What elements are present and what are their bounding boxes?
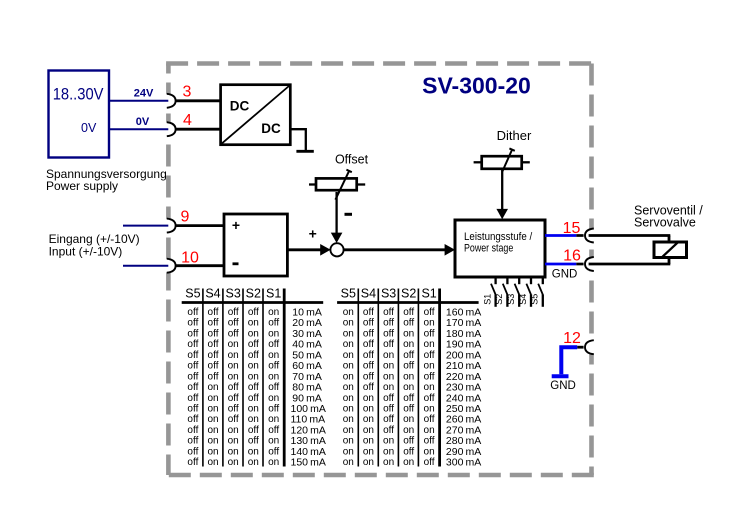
svg-text:on: on [424,361,435,372]
svg-text:S1: S1 [266,287,281,301]
svg-text:off: off [424,371,435,382]
svg-text:off: off [403,446,414,457]
svg-text:on: on [343,393,354,404]
svg-text:on: on [207,446,218,457]
connector pin 10 [167,250,199,273]
svg-text:on: on [248,457,259,468]
svg-text:on: on [343,425,354,436]
svg-text:S4: S4 [518,294,528,305]
svg-text:GND: GND [550,380,576,392]
svg-text:on: on [207,382,218,393]
ground (pin 12) [552,374,569,378]
wire dither pot to power stage (arrow) [496,169,508,219]
svg-text:S4: S4 [205,287,220,301]
svg-text:on: on [207,457,218,468]
svg-text:on: on [207,425,218,436]
svg-text:off: off [208,339,219,350]
svg-text:0V: 0V [136,116,150,128]
svg-text:on: on [424,425,435,436]
table row 140 mA [187,446,325,458]
svg-text:on: on [424,339,435,350]
table row 270 mA [343,424,482,436]
wire DC/DC to ground [290,129,306,150]
potentiometer R-dither [474,148,530,171]
svg-text:off: off [187,457,198,468]
svg-text:off: off [208,361,219,372]
table row 30 mA [187,328,321,340]
power supply source box (18..30V) [49,71,110,158]
svg-text:off: off [208,307,219,318]
svg-text:Power stage: Power stage [464,243,513,255]
svg-text:16: 16 [563,248,581,265]
svg-text:off: off [187,382,198,393]
svg-text:on: on [403,382,414,393]
connector pin 9 [167,209,190,233]
svg-text:10: 10 [181,250,199,267]
svg-text:off: off [228,382,239,393]
svg-text:on: on [228,425,239,436]
svg-text:on: on [403,371,414,382]
svg-text:off: off [424,414,435,425]
svg-text:off: off [248,393,259,404]
wire pin 9 to amplifier [175,224,225,227]
table row 60 mA [187,360,321,372]
svg-text:on: on [268,414,279,425]
svg-text:off: off [424,307,435,318]
table row 110 mA [187,414,325,426]
wire pin 15 to servo valve [589,234,671,237]
table row 120 mA [187,424,325,436]
power stage box (Leistungsstufe) [455,220,545,277]
svg-text:off: off [248,382,259,393]
svg-text:off: off [228,318,239,329]
svg-text:on: on [343,382,354,393]
svg-text:+: + [232,217,240,233]
svg-text:on: on [424,446,435,457]
table row 80 mA [187,382,321,394]
svg-text:off: off [268,361,279,372]
svg-text:S2: S2 [494,294,504,305]
svg-text:off: off [187,307,198,318]
svg-text:on: on [343,361,354,372]
table row 130 mA [187,435,325,447]
svg-text:off: off [268,446,279,457]
svg-text:on: on [228,446,239,457]
svg-text:off: off [363,307,374,318]
svg-text:off: off [363,339,374,350]
svg-text:on: on [363,393,374,404]
svg-text:S5: S5 [185,287,200,301]
svg-text:Offset: Offset [335,152,369,166]
table row 250 mA [343,403,482,415]
svg-text:on: on [228,350,239,361]
svg-text:off: off [383,339,394,350]
svg-text:off: off [248,350,259,361]
svg-text:off: off [268,318,279,329]
svg-text:off: off [187,328,198,339]
label Spannungsversorgung / Power supply [46,167,167,193]
svg-text:on: on [228,457,239,468]
table grid lines [337,289,479,467]
svg-text:Servovalve: Servovalve [634,216,696,230]
svg-text:on: on [268,436,279,447]
svg-text:on: on [343,446,354,457]
svg-text:on: on [383,350,394,361]
wire power stage output to pin 15 [545,234,584,237]
svg-text:S4: S4 [361,287,376,301]
svg-text:3: 3 [183,84,192,101]
svg-text:off: off [187,446,198,457]
table row 70 mA [187,371,321,383]
svg-text:off: off [403,318,414,329]
svg-text:on: on [383,446,394,457]
table row 170 mA [343,317,482,329]
svg-text:on: on [363,436,374,447]
switch S2 (current range DIP) [494,277,507,307]
svg-text:Leistungsstufe /: Leistungsstufe / [464,231,533,243]
svg-text:off: off [424,393,435,404]
svg-text:off: off [187,339,198,350]
op-amp U2 input amplifier [224,214,287,276]
svg-text:off: off [403,307,414,318]
svg-text:off: off [268,404,279,415]
svg-text:off: off [187,371,198,382]
svg-text:off: off [187,425,198,436]
table row 200 mA [343,349,482,361]
svg-text:on: on [343,436,354,447]
wire pin 3 to DC/DC [175,99,222,102]
svg-text:on: on [343,350,354,361]
svg-text:off: off [268,425,279,436]
table header S5..S1 [185,287,281,301]
svg-text:on: on [343,307,354,318]
svg-text:off: off [363,382,374,393]
svg-text:off: off [228,307,239,318]
table row 230 mA [343,382,482,394]
wire amplifier output to summing junction (arrow) [287,244,330,256]
table header S5..S1 [341,287,437,301]
svg-text:on: on [248,318,259,329]
svg-text:off: off [228,414,239,425]
svg-text:off: off [208,350,219,361]
svg-text:on: on [363,457,374,468]
svg-text:off: off [228,404,239,415]
svg-text:on: on [403,425,414,436]
wire 24V supply (outside, to pin 3) [108,87,168,101]
svg-text:on: on [207,393,218,404]
connector pin 16 [563,248,594,272]
svg-text:on: on [343,328,354,339]
svg-text:S3: S3 [506,294,516,305]
svg-text:18..30V: 18..30V [53,85,104,103]
svg-text:on: on [228,371,239,382]
table row 280 mA [343,435,482,447]
svg-text:S2: S2 [246,287,261,301]
svg-text:on: on [248,414,259,425]
switch S5 (current range DIP) [530,277,543,307]
svg-text:off: off [363,328,374,339]
svg-text:on: on [228,339,239,350]
connector pin 12 [563,330,594,354]
svg-text:150 mA: 150 mA [291,457,326,469]
svg-text:Power supply: Power supply [46,179,118,193]
svg-text:off: off [403,404,414,415]
svg-text:on: on [424,318,435,329]
svg-text:off: off [187,350,198,361]
svg-text:off: off [383,425,394,436]
svg-text:on: on [403,414,414,425]
svg-text:9: 9 [181,209,190,226]
table grid lines [182,289,324,467]
svg-text:on: on [207,404,218,415]
svg-text:off: off [187,414,198,425]
svg-text:S2: S2 [401,287,416,301]
switch S3 (current range DIP) [506,277,519,307]
wire pin 12 to ground [561,347,583,374]
svg-text:off: off [268,382,279,393]
svg-text:on: on [383,457,394,468]
svg-text:off: off [403,436,414,447]
svg-text:4: 4 [183,112,192,129]
wire offset pot to summing junction (arrow) [331,192,343,243]
switch S4 (current range DIP) [518,277,531,307]
svg-text:Input (+/-10V): Input (+/-10V) [49,245,123,259]
svg-text:on: on [403,328,414,339]
switch S1 (current range DIP) [482,277,495,307]
svg-text:on: on [343,371,354,382]
svg-text:off: off [228,393,239,404]
minus sign at summing input from offset [345,213,353,216]
table row 180 mA [343,328,482,340]
svg-text:on: on [383,436,394,447]
svg-text:SV-300-20: SV-300-20 [422,73,531,99]
svg-text:12: 12 [563,330,581,347]
svg-text:S1: S1 [421,287,436,301]
svg-text:off: off [363,371,374,382]
svg-text:on: on [248,361,259,372]
connector pin 15 [563,220,594,243]
svg-text:off: off [424,328,435,339]
table row 260 mA [343,414,482,426]
table row 300 mA [343,457,482,469]
svg-text:GND: GND [552,269,578,281]
wire summing junction to power stage (arrow) [344,244,455,256]
table row 90 mA [187,392,321,404]
svg-text:on: on [343,339,354,350]
table row 40 mA [187,339,321,351]
table row 220 mA [343,371,482,383]
svg-text:off: off [424,350,435,361]
svg-text:S3: S3 [226,287,241,301]
svg-text:DC: DC [261,121,281,136]
svg-text:off: off [248,425,259,436]
svg-text:off: off [248,436,259,447]
svg-text:on: on [343,414,354,425]
svg-text:off: off [208,371,219,382]
svg-text:DC: DC [230,99,250,114]
enclosure dashed border (module boundary) [164,64,597,476]
svg-text:on: on [228,361,239,372]
DC/DC converter U1 [221,85,291,145]
svg-text:Dither: Dither [497,128,532,143]
connector pin 4 [167,112,192,136]
svg-text:on: on [268,393,279,404]
svg-text:off: off [187,361,198,372]
svg-text:off: off [187,393,198,404]
table row 150 mA [187,457,325,469]
svg-text:on: on [268,307,279,318]
svg-text:off: off [403,350,414,361]
table row 290 mA [343,446,482,458]
svg-text:on: on [383,371,394,382]
svg-text:on: on [248,328,259,339]
label Servoventil / Servovalve [634,203,703,229]
svg-text:on: on [363,414,374,425]
svg-text:off: off [383,318,394,329]
table row 50 mA [187,349,321,361]
svg-text:on: on [363,425,374,436]
svg-text:off: off [383,307,394,318]
svg-text:on: on [268,328,279,339]
label Eingang / Input [49,232,140,259]
svg-text:on: on [343,318,354,329]
ground (DC/DC) [296,150,313,153]
table row 100 mA [187,403,325,415]
svg-text:on: on [403,457,414,468]
svg-text:on: on [207,414,218,425]
table row 240 mA [343,392,482,404]
svg-text:on: on [268,350,279,361]
svg-text:off: off [424,457,435,468]
table row 160 mA [343,307,482,319]
svg-text:off: off [383,328,394,339]
svg-text:on: on [228,436,239,447]
svg-text:off: off [208,328,219,339]
table row 20 mA [187,317,321,329]
summing junction node [330,243,343,256]
svg-text:off: off [268,339,279,350]
svg-text:on: on [343,457,354,468]
servo valve solenoid Y1 [654,236,687,265]
svg-text:S3: S3 [381,287,396,301]
svg-text:off: off [187,404,198,415]
svg-text:S1: S1 [482,294,492,305]
svg-text:on: on [268,457,279,468]
potentiometer R-offset [309,170,365,200]
svg-text:on: on [268,371,279,382]
svg-text:off: off [424,436,435,447]
svg-text:S5: S5 [341,287,356,301]
wire pin 16 to servo valve [589,263,671,266]
svg-text:off: off [383,404,394,415]
svg-text:on: on [363,446,374,457]
svg-text:off: off [363,361,374,372]
svg-text:off: off [228,328,239,339]
wire 0V supply (outside, to pin 4) [108,116,168,129]
svg-text:off: off [363,318,374,329]
svg-text:off: off [248,339,259,350]
table row 10 mA [187,307,321,319]
table row 210 mA [343,360,482,372]
svg-text:15: 15 [563,220,581,237]
svg-text:off: off [187,436,198,447]
svg-text:on: on [383,382,394,393]
table row 190 mA [343,339,482,351]
svg-text:S5: S5 [530,294,540,305]
svg-text:off: off [363,350,374,361]
svg-text:off: off [248,307,259,318]
svg-text:on: on [403,339,414,350]
svg-text:on: on [343,404,354,415]
svg-text:on: on [424,404,435,415]
connector pin 3 [167,84,192,108]
svg-text:on: on [363,404,374,415]
wire input signal (outside, to pin 10) [123,265,168,267]
svg-text:on: on [424,382,435,393]
svg-text:off: off [187,318,198,329]
svg-text:on: on [383,361,394,372]
wire input signal (outside, to pin 9) [123,225,168,227]
svg-text:off: off [383,393,394,404]
wire power stage GND to pin 16 [545,263,584,266]
svg-text:+: + [309,226,317,242]
wire pin 10 to amplifier [175,264,225,267]
svg-text:300 mA: 300 mA [446,457,481,469]
svg-text:on: on [248,446,259,457]
svg-text:off: off [208,318,219,329]
svg-text:on: on [248,371,259,382]
svg-text:off: off [403,361,414,372]
wire pin 4 to DC/DC [175,128,222,131]
svg-text:0V: 0V [81,121,97,135]
svg-text:24V: 24V [134,87,154,99]
svg-text:off: off [383,414,394,425]
svg-text:off: off [403,393,414,404]
svg-text:on: on [207,436,218,447]
svg-text:on: on [248,404,259,415]
